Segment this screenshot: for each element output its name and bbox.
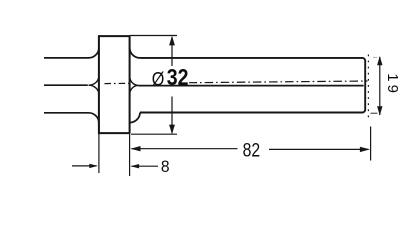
O32 up arrowhead xyxy=(169,36,175,46)
8 left arrowhead (points right) xyxy=(89,164,98,168)
19 up arrowhead xyxy=(377,56,382,65)
extension line right of collar bottom (for O32) xyxy=(131,133,177,135)
left hex shank middle edge line xyxy=(44,84,88,86)
82 dimension line left segment xyxy=(132,148,238,150)
19 dimension line xyxy=(379,57,381,115)
8 right arrowhead (points left) xyxy=(131,164,140,168)
82 dimension line right segment xyxy=(269,148,369,150)
right shank top fillet xyxy=(130,48,140,58)
white gap behind diameter text xyxy=(149,67,189,84)
right shank bottom fillet xyxy=(130,113,140,123)
centerline of right shank (dash-dot) xyxy=(189,81,368,83)
19 down arrowhead xyxy=(377,106,382,115)
right shank top outline with rounded end xyxy=(140,58,365,113)
right fishtail upper curve xyxy=(130,76,139,86)
19 bottom extension tick xyxy=(371,112,378,114)
right shank hex edge line xyxy=(138,85,363,87)
O32 down arrowhead xyxy=(169,125,175,135)
O32 dimension line lower segment xyxy=(171,97,173,134)
svg-text:32: 32 xyxy=(167,65,189,91)
82 right arrowhead xyxy=(360,147,370,152)
collar top edge xyxy=(98,35,130,37)
8 dimension line right piece xyxy=(132,165,159,167)
dotted end-tangent line at shank tip xyxy=(367,55,369,118)
8 dimension line left piece xyxy=(72,165,97,167)
O32 dimension line upper segment xyxy=(171,37,173,66)
svg-text:19: 19 xyxy=(384,73,401,96)
82 right extension line below shank end xyxy=(370,127,372,161)
82 left arrowhead xyxy=(131,146,141,151)
left hex shank top line with fillet xyxy=(44,48,99,58)
19 top extension tick xyxy=(373,56,377,58)
collar left edge xyxy=(98,36,100,133)
left fishtail upper curve xyxy=(89,76,99,85)
centerline in collar (dash-dot) xyxy=(105,82,130,84)
collar right edge extension below (for 82 and 8) xyxy=(129,133,131,176)
collar right edge xyxy=(129,36,131,133)
left hex shank bottom line with fillet xyxy=(44,113,99,123)
svg-text:8: 8 xyxy=(161,157,170,176)
collar bottom edge xyxy=(98,132,130,134)
extension line right of collar top (for O32) xyxy=(130,35,177,37)
left fishtail lower curve xyxy=(89,85,99,94)
part outline: chisel shank with collar xyxy=(44,36,365,133)
right fishtail lower curve xyxy=(130,85,139,94)
svg-text:Ø: Ø xyxy=(152,68,165,90)
collar left edge extension below (for 8) xyxy=(98,133,100,173)
svg-text:82: 82 xyxy=(243,139,261,161)
